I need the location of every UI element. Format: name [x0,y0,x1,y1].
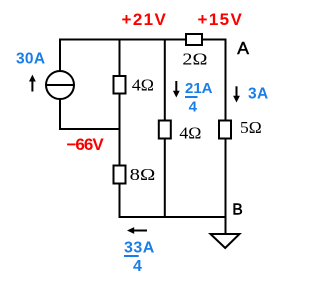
svg-text:5Ω: 5Ω [240,118,262,137]
svg-text:4: 4 [133,258,142,275]
svg-text:8Ω: 8Ω [130,165,156,184]
svg-text:+21V: +21V [122,10,168,29]
svg-text:4Ω: 4Ω [179,124,201,143]
svg-text:2Ω: 2Ω [182,50,207,69]
svg-text:−66V: −66V [67,135,105,154]
svg-text:21A: 21A [185,80,213,97]
svg-text:4Ω: 4Ω [132,76,154,95]
svg-text:4: 4 [189,98,198,115]
svg-text:30A: 30A [16,50,45,67]
svg-text:33A: 33A [124,239,155,256]
svg-text:A: A [237,38,249,58]
svg-text:B: B [232,202,242,219]
svg-text:3A: 3A [248,86,269,103]
svg-text:+15V: +15V [198,10,244,29]
